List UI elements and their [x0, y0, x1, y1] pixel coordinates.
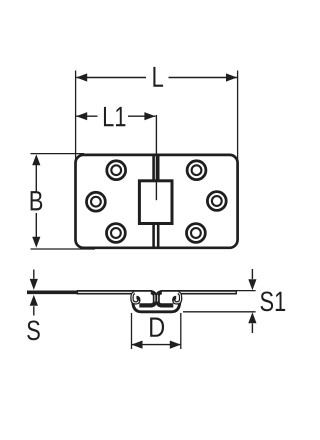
section view: plate joint tick	[76, 290, 78, 294]
dimension S label	[27, 320, 40, 340]
dimension D extension line right	[180, 313, 182, 349]
dimension B extension line top	[31, 153, 85, 155]
hole left bottom	[107, 224, 126, 243]
hole left middle	[87, 192, 106, 211]
leaf left inner edge	[152, 155, 155, 248]
hinge leaves outline (top view)	[76, 155, 238, 248]
dimension S1 upper arrow	[248, 269, 256, 290]
dimension L line	[76, 73, 237, 81]
dimension S1 extension line top	[236, 290, 255, 292]
section view: right plate bottom line	[179, 293, 236, 295]
dimension L label	[153, 67, 163, 87]
dimension L1 line	[76, 112, 155, 120]
hole right middle	[207, 192, 226, 211]
hole right bottom	[187, 224, 206, 243]
dimension S1 lower arrow	[248, 312, 256, 333]
dimension D line	[132, 341, 181, 349]
dimension D extension line left	[131, 313, 133, 349]
section view: left leaf bend and interior bottom	[139, 292, 155, 305]
dimension B label	[31, 191, 43, 210]
section view: outer wrap bottom stroke	[133, 301, 180, 312]
section view: right hook curl	[174, 293, 181, 303]
dimension S1 label	[260, 291, 273, 311]
dimension S lower arrow	[30, 295, 38, 316]
leaf right inner edge	[157, 155, 160, 248]
section view: left plate top line	[27, 290, 78, 294]
dimension D label	[150, 318, 164, 337]
center line	[155, 115, 157, 200]
section view: left hook curl	[132, 293, 139, 303]
section view: right plate end	[235, 290, 237, 294]
dimension B line	[32, 154, 40, 248]
hole right top	[187, 161, 206, 180]
dimension S upper arrow	[30, 270, 38, 290]
dimension L extension line right	[237, 71, 239, 167]
section view: right leaf bend and interior bottom	[158, 292, 174, 305]
dimension B extension line bottom	[31, 248, 96, 250]
hole left top	[107, 161, 126, 180]
dimension S1 extension line bottom	[183, 311, 256, 313]
knuckle rectangle (top view)	[139, 181, 172, 224]
dimension L extension line left	[75, 71, 77, 167]
section view: right plate top line	[160, 290, 236, 292]
section view: left plate bottom line	[77, 293, 134, 295]
dimension L1 label	[104, 107, 114, 126]
